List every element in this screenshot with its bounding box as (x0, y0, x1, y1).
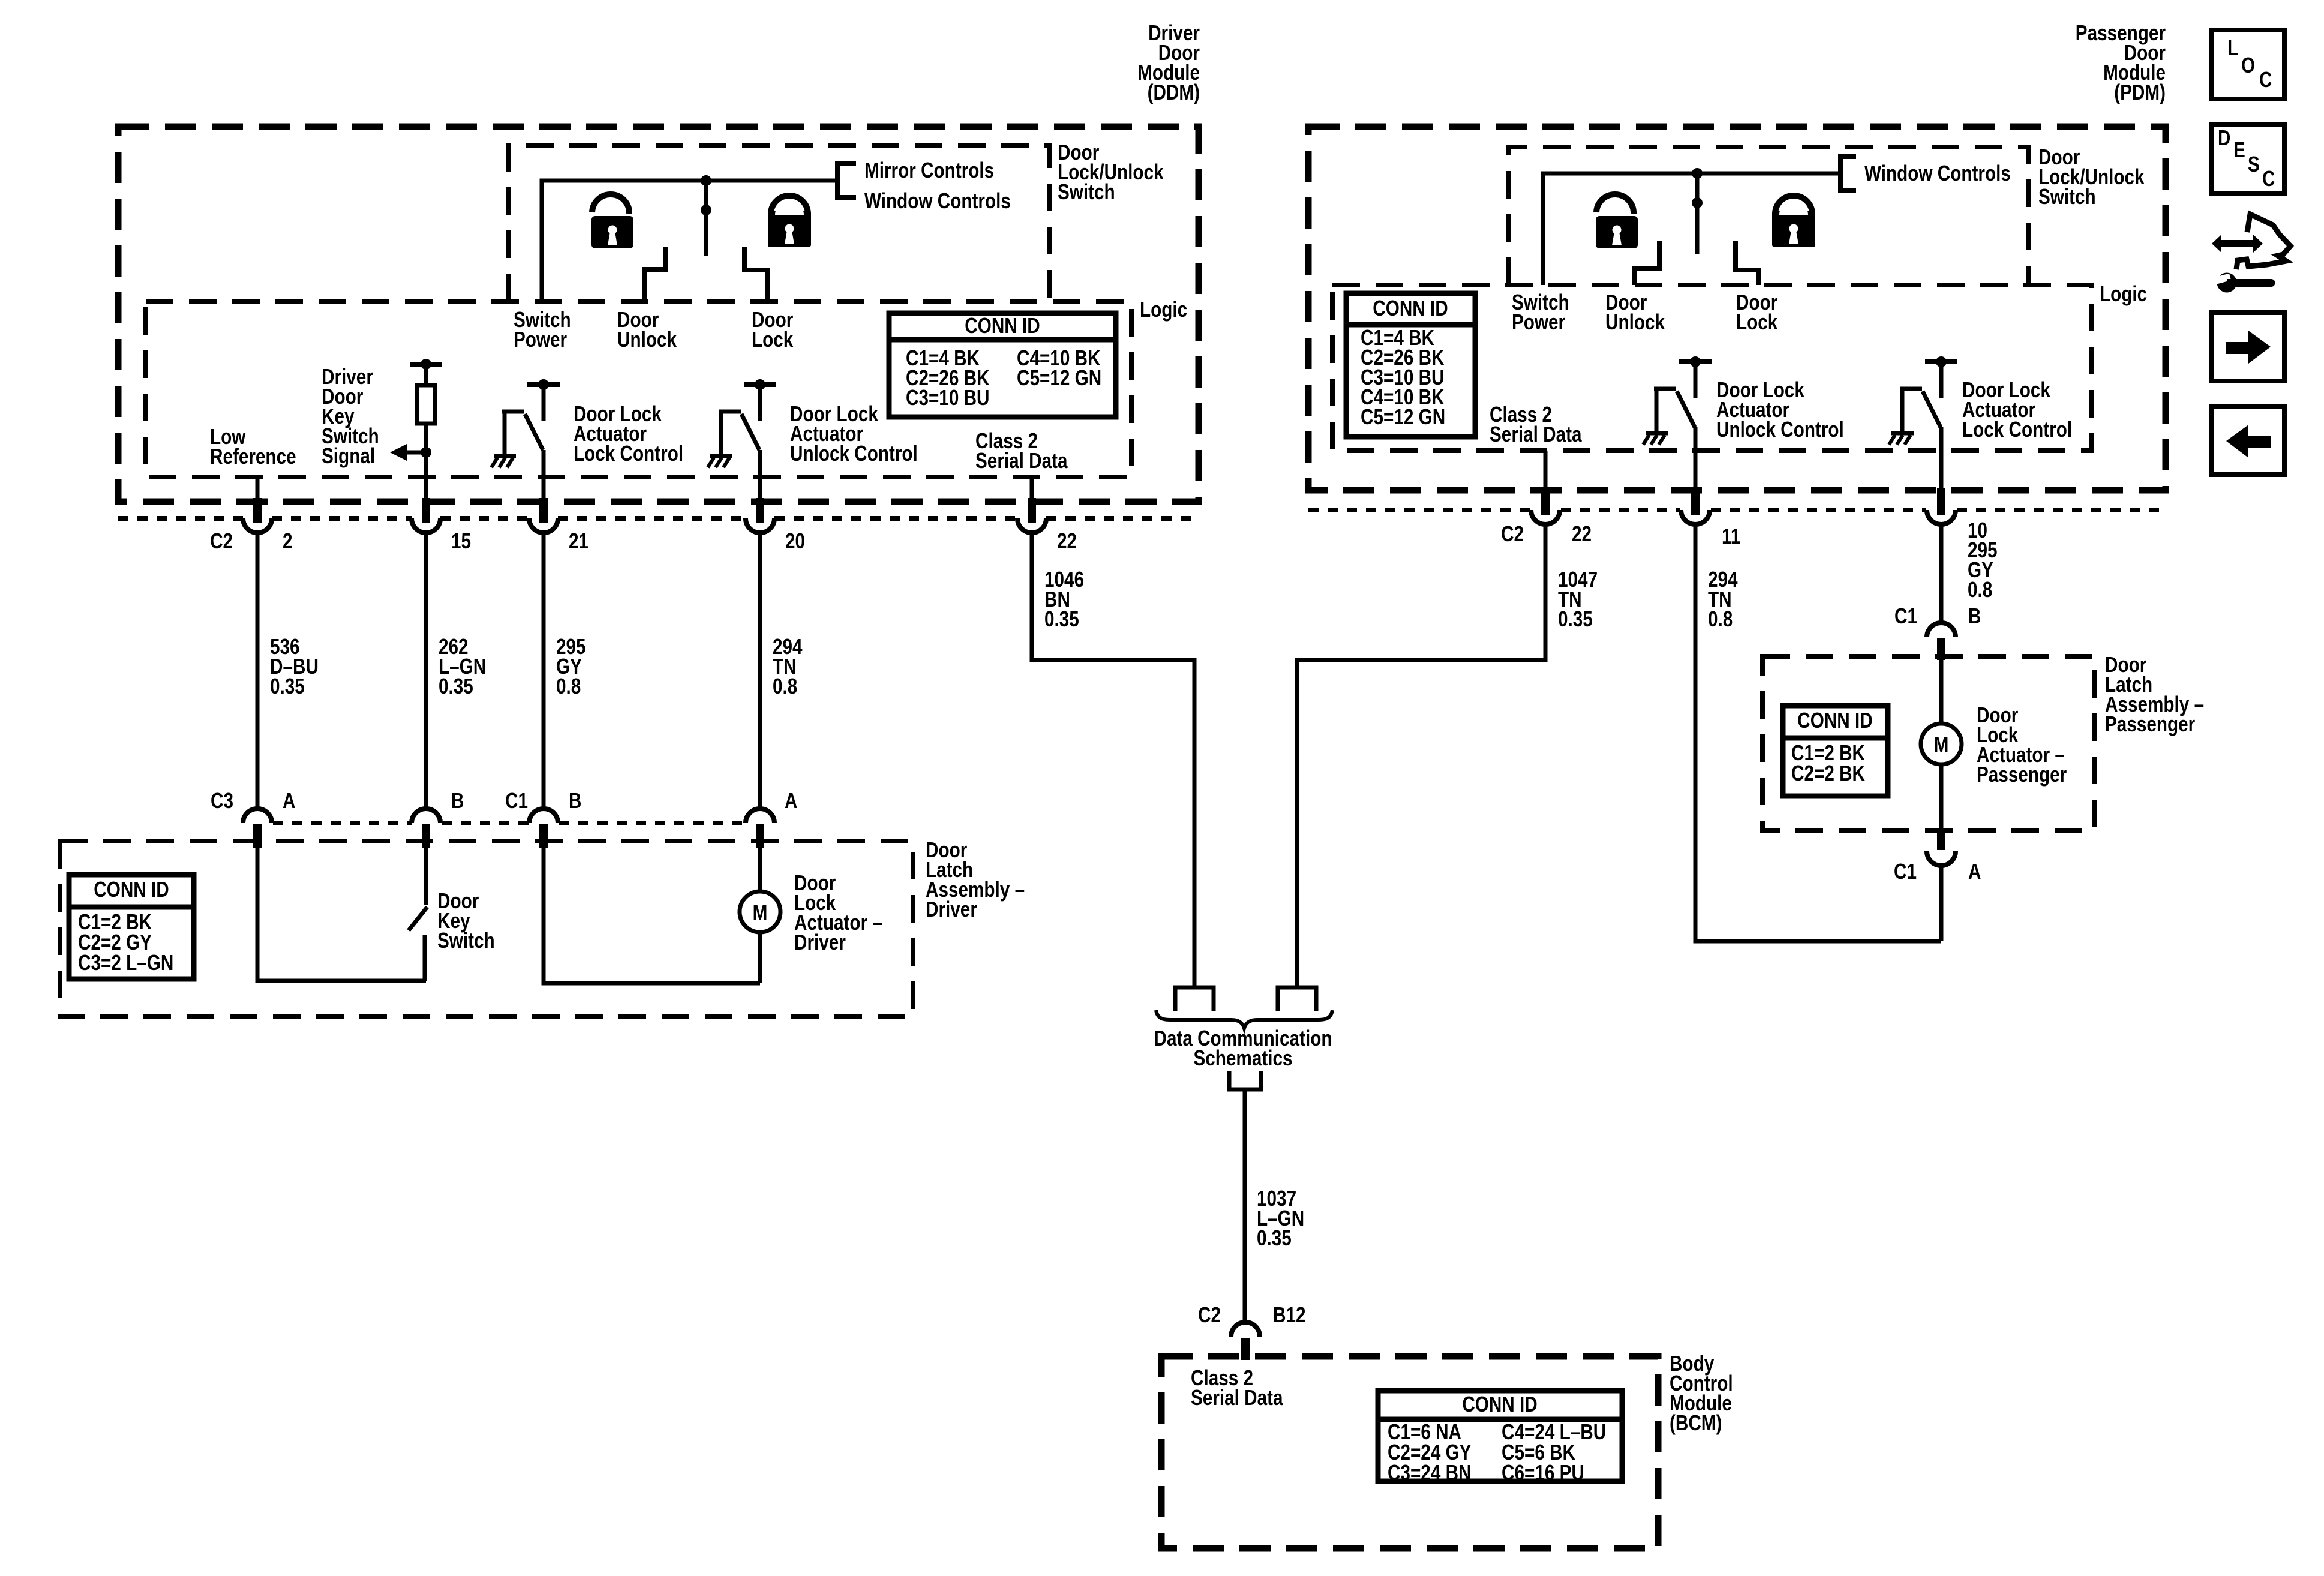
label: Logic (PDM) (2100, 281, 2147, 306)
wire: driver latch low reference loop (257, 848, 426, 981)
icon: LOC button (2211, 30, 2284, 99)
label: Driver Door Key Switch Signal (322, 364, 379, 468)
wire: driver actuator feed (758, 848, 762, 983)
wire: PDM switch power feed (1543, 173, 1840, 285)
icon: right arrow button (2211, 313, 2284, 381)
relay driver: PDM door lock actuator lock control (1889, 356, 1957, 445)
wire: PDM unlock control output (1694, 427, 1698, 488)
pin 21 label (569, 529, 588, 553)
svg-text:C2: C2 (210, 529, 233, 553)
connector terminal: passenger latch C1 pin B (1927, 623, 1956, 660)
icon: left arrow button (2211, 406, 2284, 475)
bracket: DDM mirror/window controls stub (837, 164, 856, 197)
svg-text:0.35: 0.35 (1257, 1226, 1292, 1250)
svg-text:M: M (753, 900, 768, 924)
svg-text:Logic: Logic (1140, 297, 1187, 322)
connector terminal: PDM C2 pin at x=2576 (1531, 488, 1560, 527)
svg-text:Switch: Switch (2038, 184, 2096, 209)
wire: DDM internal drop at x=429 (256, 477, 260, 499)
connector line: DDM C2 harness connector (dotted) (118, 516, 1199, 521)
relay driver: PDM door lock actuator unlock control (1643, 356, 1712, 445)
wire: PDM switch common pole with junction dots (1692, 168, 1703, 254)
wire: circuit 1047 class 2 serial data (PDM) (1297, 524, 1545, 987)
table: passenger latch CONN ID (1783, 706, 1888, 796)
wire: circuit 294 unlock control (passenger) (1695, 524, 1941, 941)
connector terminal: driver latch pin at x=429 (243, 809, 272, 848)
svg-text:11: 11 (1722, 524, 1740, 548)
svg-text:0.35: 0.35 (439, 674, 473, 698)
bracket: PDM window controls stub (1840, 157, 1856, 190)
inner box: Door Lock/Unlock Switch (DDM) (509, 146, 1050, 301)
svg-text:C2: C2 (1198, 1302, 1221, 1327)
label: Switch Power (DDM) (514, 307, 571, 352)
svg-text:(PDM): (PDM) (2114, 80, 2166, 104)
icon: vehicle outline with double arrow and wrench (2212, 214, 2290, 293)
wire: circuit 536 low reference (256, 533, 260, 809)
svg-text:15: 15 (451, 529, 471, 553)
label: Window Controls (DDM) (864, 188, 1011, 213)
module box: Door Latch Assembly - Passenger (1762, 656, 2094, 831)
wire: circuit 1037 class 2 serial data to BCM (1243, 1089, 1247, 1322)
svg-text:A: A (283, 788, 295, 813)
wire label: 295 GY 0.8 (passenger) (1968, 538, 1998, 602)
table: driver latch CONN ID (69, 875, 194, 979)
svg-text:L: L (2227, 35, 2238, 60)
label: Door Lock Actuator Unlock Control (PDM) (1716, 377, 1844, 442)
svg-text:C: C (2259, 67, 2272, 92)
label: Body Control Module (BCM) (1670, 1351, 1733, 1435)
svg-text:D: D (2218, 125, 2230, 150)
connector terminal: PDM C2 pin at x=2826 (1681, 488, 1710, 527)
module box: Door Latch Assembly - Driver (60, 841, 913, 1017)
label: Door Latch Assembly - Passenger (2105, 652, 2204, 736)
pin A label (driver actuator) (785, 788, 797, 813)
svg-text:Window Controls: Window Controls (864, 188, 1011, 213)
svg-text:B: B (569, 788, 581, 813)
wire: driver actuator return loop (544, 848, 760, 983)
wire: DDM internal drop at x=906 (542, 477, 546, 499)
connector terminal: DDM C2 pin at x=1267 (746, 498, 774, 535)
label: Door Lock Actuator Lock Control (PDM) (1962, 377, 2072, 442)
label: connector C2 (PDM) (1501, 521, 1524, 546)
svg-text:S: S (2248, 152, 2260, 176)
svg-text:C2: C2 (1501, 521, 1524, 546)
label: Door Lock/Unlock Switch (PDM) (2038, 145, 2145, 209)
svg-text:CONN ID: CONN ID (1462, 1392, 1537, 1416)
svg-text:Logic: Logic (2100, 281, 2147, 306)
svg-text:B: B (451, 788, 464, 813)
svg-text:0.35: 0.35 (270, 674, 305, 698)
svg-text:M: M (1934, 732, 1949, 757)
icon: open padlock (PDM unlock) (1596, 194, 1638, 248)
pin B label (driver key switch) (451, 788, 464, 813)
connector line: driver latch inline connectors (dotted) (273, 821, 746, 825)
label: Door Key Switch (437, 888, 495, 953)
pin 22 label (DDM) (1057, 529, 1077, 553)
switch contact: PDM door unlock (1635, 241, 1659, 285)
wire: circuit 262 key switch signal (424, 533, 428, 809)
svg-text:CONN ID: CONN ID (94, 877, 169, 902)
pin A label (driver key switch) (283, 788, 295, 813)
label: Door Lock Actuator - Driver (794, 870, 882, 954)
label: Door Unlock (PDM) (1605, 290, 1665, 334)
pin 22 label (PDM) (1572, 521, 1592, 546)
svg-text:Lock: Lock (1736, 310, 1778, 334)
module box: Passenger Door Module (PDM) (1308, 127, 2166, 490)
svg-text:20: 20 (785, 529, 805, 553)
svg-text:Passenger: Passenger (1977, 762, 2067, 787)
svg-text:0.8: 0.8 (1708, 607, 1733, 631)
svg-text:Serial Data: Serial Data (975, 448, 1068, 473)
wire: passenger actuator feed (1939, 660, 1944, 828)
svg-text:C1: C1 (505, 788, 528, 813)
svg-text:Lock: Lock (752, 327, 794, 352)
svg-text:Lock Control: Lock Control (1962, 417, 2072, 442)
motor: door lock actuator - passenger (1921, 724, 1962, 764)
svg-text:CONN ID: CONN ID (1373, 296, 1448, 320)
svg-text:Unlock: Unlock (1605, 310, 1665, 334)
resistor: driver door key switch pull-up (410, 359, 442, 477)
svg-text:C5=12 GN: C5=12 GN (1017, 365, 1101, 390)
svg-text:O: O (2241, 53, 2255, 77)
wire: circuit 295 lock control (passenger) (1939, 524, 1944, 624)
label: Door Lock Actuator Unlock Control (DDM) (790, 401, 918, 466)
terminal symbol: class 2 bus terminal (DDM side) (1175, 987, 1214, 1011)
svg-text:CONN ID: CONN ID (965, 313, 1040, 338)
label: connector C1 pin B (passenger) (1894, 604, 1981, 628)
relay driver: DDM door lock actuator lock control (491, 379, 560, 467)
svg-text:Mirror Controls: Mirror Controls (864, 158, 994, 182)
svg-text:0.35: 0.35 (1558, 607, 1593, 631)
svg-text:Switch: Switch (1058, 179, 1115, 204)
svg-text:B: B (1968, 604, 1981, 628)
wire: PDM class 2 serial data drop (1544, 451, 1548, 488)
svg-text:Reference: Reference (210, 444, 296, 469)
wire: DDM switch power feed (542, 181, 837, 301)
inner box: Logic (DDM) (146, 301, 1131, 477)
label: Window Controls (PDM) (1864, 161, 2011, 185)
label: Door Lock (PDM) (1736, 290, 1778, 334)
label: Door Unlock (DDM) (617, 307, 677, 352)
svg-text:0.35: 0.35 (1044, 607, 1079, 631)
svg-text:Power: Power (514, 327, 567, 352)
brace: data communication schematics group (1156, 1010, 1332, 1028)
svg-text:0.8: 0.8 (773, 674, 797, 698)
table: DDM CONN ID (889, 313, 1116, 417)
icon: closed padlock (PDM lock) (1772, 196, 1815, 247)
terminal symbol: class 2 bus terminal (PDM side) (1278, 987, 1316, 1011)
svg-text:Switch: Switch (437, 928, 495, 953)
switch contact: DDM door lock (744, 247, 768, 301)
label: Data Communication Schematics (1154, 1026, 1332, 1070)
svg-text:C2=2 BK: C2=2 BK (1791, 761, 1865, 785)
svg-text:Serial Data: Serial Data (1490, 422, 1582, 446)
wire: DDM internal drop at x=1720 (1030, 477, 1034, 499)
svg-text:Driver: Driver (794, 930, 846, 954)
svg-text:0.8: 0.8 (556, 674, 581, 698)
label: connector C1 (driver latch) (505, 788, 528, 813)
svg-text:(DDM): (DDM) (1148, 80, 1200, 104)
switch: door key switch (409, 848, 427, 981)
svg-text:B12: B12 (1273, 1302, 1306, 1327)
svg-text:C3=2 L–GN: C3=2 L–GN (78, 950, 173, 975)
label: Class 2 Serial Data (DDM) (975, 428, 1068, 473)
pin 15 label (451, 529, 471, 553)
signal tap arrow: driver door key switch signal (390, 444, 431, 461)
connector terminal: PDM C2 pin at x=3236 (1927, 488, 1956, 527)
wire: circuit 295 lock control (driver) (542, 533, 546, 809)
svg-text:Schematics: Schematics (1193, 1046, 1292, 1070)
connector terminal: DDM C2 pin at x=906 (529, 498, 558, 535)
connector terminal: DDM C2 pin at x=710 (412, 498, 440, 535)
label: connector C1 pin A (passenger) (1894, 859, 1981, 884)
label: Driver Door Module (DDM) (1137, 20, 1200, 104)
table: PDM CONN ID (1346, 293, 1475, 437)
connector terminal: driver latch pin at x=710 (412, 809, 440, 848)
label: Low Reference (210, 424, 296, 469)
svg-text:C3: C3 (211, 788, 233, 813)
label: connector C2 pin B12 (1198, 1302, 1306, 1327)
icon: closed padlock (DDM lock) (768, 196, 811, 247)
label: Class 2 Serial Data (BCM) (1191, 1365, 1283, 1410)
svg-text:A: A (785, 788, 797, 813)
connector terminal: DDM C2 pin at x=429 (243, 498, 272, 535)
pin 20 label (785, 529, 805, 553)
relay driver: DDM door lock actuator unlock control (708, 379, 776, 467)
svg-text:Lock Control: Lock Control (574, 441, 683, 466)
wire label: 536 D-BU 0.35 (270, 634, 319, 698)
wire label: 294 TN 0.8 (passenger) (1708, 567, 1738, 631)
wire: DDM lock control output (542, 450, 546, 477)
wire: DDM internal drop at x=1267 (758, 477, 762, 499)
table: BCM CONN ID (1378, 1391, 1622, 1485)
label: Passenger Door Module (PDM) (2076, 20, 2166, 104)
connector terminal: BCM C2 pin B12 (1231, 1322, 1260, 1360)
pin 2 label (283, 529, 293, 553)
svg-text:C3=10 BU: C3=10 BU (906, 385, 990, 410)
svg-text:Power: Power (1512, 310, 1565, 334)
motor: door lock actuator - driver (740, 891, 780, 932)
svg-text:22: 22 (1057, 529, 1077, 553)
pin B label (driver actuator) (569, 788, 581, 813)
svg-text:E: E (2233, 137, 2245, 162)
svg-text:A: A (1968, 859, 1981, 884)
label: Door Lock (DDM) (752, 307, 794, 352)
svg-text:CONN ID: CONN ID (1797, 708, 1872, 733)
label: Door Lock Actuator - Passenger (1977, 703, 2067, 787)
svg-text:Serial Data: Serial Data (1191, 1385, 1283, 1410)
label: Mirror Controls (864, 158, 994, 182)
wire: DDM switch common pole with junction dots (701, 175, 711, 256)
pin 11 label (1722, 524, 1740, 548)
wire: DDM internal drop at x=710 (424, 477, 428, 499)
svg-text:C6=16 PU: C6=16 PU (1502, 1460, 1584, 1485)
svg-text:Window Controls: Window Controls (1864, 161, 2011, 185)
svg-text:Unlock Control: Unlock Control (790, 441, 918, 466)
wire: circuit 1046 class 2 serial data (DDM) (1032, 533, 1194, 987)
connector terminal: DDM C2 pin at x=1720 (1017, 498, 1046, 535)
label: Switch Power (PDM) (1512, 290, 1569, 334)
pin 10 label (1968, 518, 1987, 542)
wire label: 295 GY 0.8 (driver) (556, 634, 586, 698)
svg-text:Passenger: Passenger (2105, 712, 2195, 736)
svg-text:C1: C1 (1894, 604, 1917, 628)
svg-text:Signal: Signal (322, 443, 375, 468)
svg-text:C: C (2262, 166, 2275, 191)
wire label: 1047 TN 0.35 (1558, 567, 1598, 631)
svg-text:22: 22 (1572, 521, 1592, 546)
module box: Body Control Module (BCM) (1161, 1356, 1658, 1548)
connector line: PDM C2 harness connector (dotted) (1308, 508, 2166, 512)
label: Door Lock/Unlock Switch (DDM) (1058, 140, 1164, 204)
svg-text:Unlock: Unlock (617, 327, 677, 352)
label: connector C2 (DDM) (210, 529, 233, 553)
inner box: Door Lock/Unlock Switch (PDM) (1508, 147, 2029, 285)
icon: open padlock (DDM unlock) (591, 194, 633, 248)
label: Door Latch Assembly - Driver (926, 837, 1025, 921)
label: Logic (DDM) (1140, 297, 1187, 322)
switch contact: DDM door unlock (645, 247, 666, 301)
wire: circuit 294 unlock control (driver) (758, 533, 762, 809)
connector terminal: driver latch pin at x=906 (529, 809, 558, 848)
label: Class 2 Serial Data (PDM) (1490, 402, 1582, 446)
wire: DDM unlock control output (758, 450, 762, 477)
svg-text:(BCM): (BCM) (1670, 1410, 1722, 1435)
svg-text:2: 2 (283, 529, 293, 553)
svg-text:0.8: 0.8 (1968, 577, 1992, 602)
wire label: 294 TN 0.8 (driver) (773, 634, 803, 698)
svg-text:Driver: Driver (926, 897, 977, 921)
connector terminal: passenger latch C1 pin A (1927, 828, 1956, 941)
module box: Driver Door Module (DDM) (118, 127, 1199, 502)
bus funnel symbol (1229, 1071, 1261, 1089)
icon: DESC button (2211, 124, 2284, 193)
svg-text:C3=24 BN: C3=24 BN (1388, 1460, 1472, 1485)
wire label: 262 L-GN 0.35 (439, 634, 486, 698)
svg-text:21: 21 (569, 529, 588, 553)
inner box: Logic (PDM) (1332, 285, 2091, 451)
wire label: 1037 L-GN 0.35 (1257, 1186, 1304, 1250)
switch contact: PDM door lock (1736, 241, 1758, 285)
label: Door Lock Actuator Lock Control (DDM) (574, 401, 683, 466)
svg-text:C1: C1 (1894, 859, 1917, 884)
svg-text:Unlock Control: Unlock Control (1716, 417, 1844, 442)
wire: PDM lock control output (1939, 427, 1944, 488)
label: connector C3 (211, 788, 233, 813)
wire label: 1046 BN 0.35 (1044, 567, 1084, 631)
connector terminal: driver latch pin at x=1267 (746, 809, 774, 848)
svg-text:C5=12 GN: C5=12 GN (1361, 404, 1445, 429)
